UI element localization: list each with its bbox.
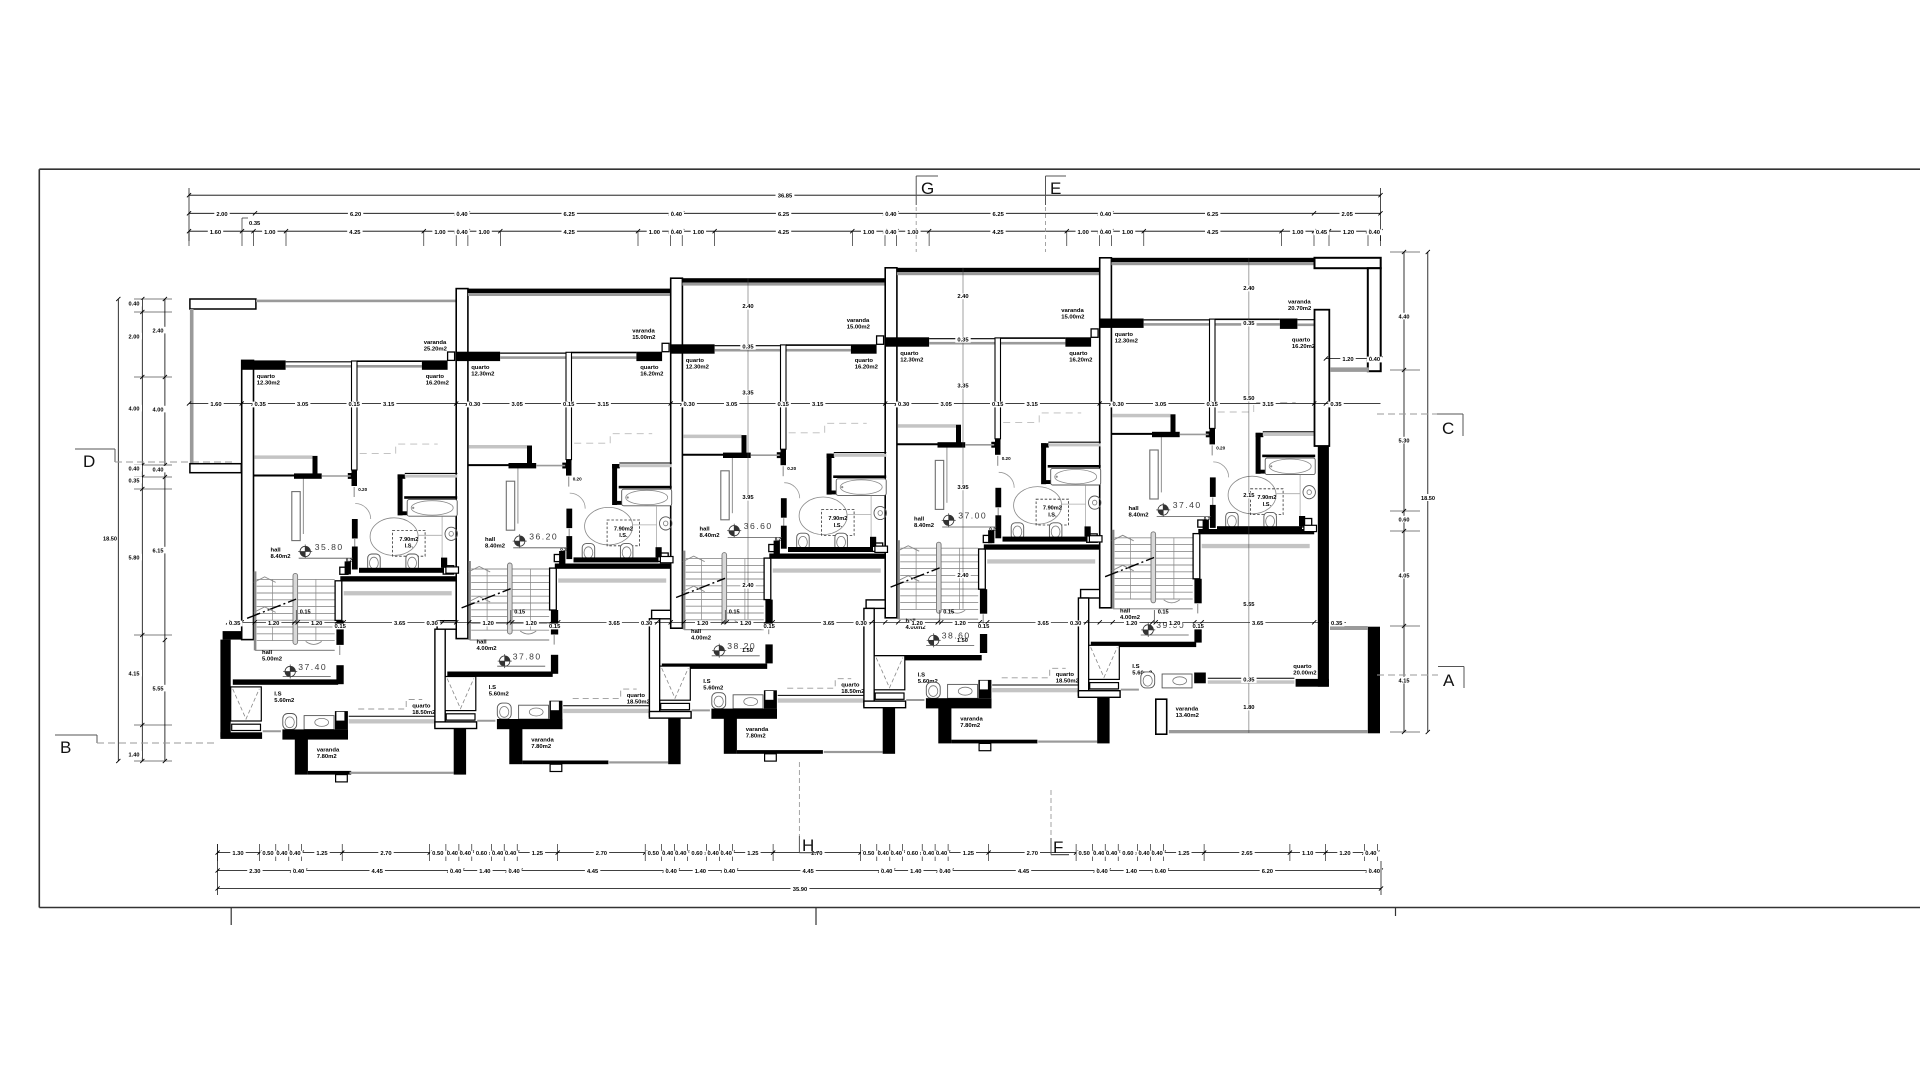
svg-text:1.00: 1.00 (478, 230, 489, 236)
unit 2 quarto 18.50 side wall (550, 568, 557, 610)
unit 4 hall door stubs (980, 589, 987, 614)
svg-text:hall: hall (477, 640, 488, 646)
unit 5 wardrobe nook (1113, 414, 1171, 418)
svg-text:37.00: 37.00 (958, 511, 987, 521)
svg-text:0.35: 0.35 (129, 478, 140, 484)
unit 1 toilet and bidet (368, 554, 381, 571)
unit 2 varanda parapet (497, 719, 563, 729)
svg-text:varanda: varanda (531, 737, 554, 743)
svg-text:7.90m2: 7.90m2 (614, 526, 633, 532)
svg-text:6.25: 6.25 (1207, 212, 1219, 218)
svg-text:I.S: I.S (703, 679, 710, 685)
svg-text:7.90m2: 7.90m2 (399, 537, 418, 543)
svg-text:18.50m2: 18.50m2 (412, 710, 436, 716)
unit 5 top right varanda 20.70 walls (1315, 258, 1381, 268)
svg-text:I.S: I.S (274, 692, 281, 698)
svg-text:hall: hall (691, 629, 702, 635)
unit 3 lower party stub (883, 706, 895, 753)
unit 2 IS label box (607, 520, 640, 546)
svg-text:2.40: 2.40 (957, 573, 968, 579)
unit 3 internal vertical dimension chain (747, 278, 749, 619)
unit 4 bath door swing arc (999, 472, 1015, 488)
svg-text:varanda: varanda (1061, 308, 1084, 314)
svg-text:5.00m2: 5.00m2 (262, 656, 283, 662)
svg-text:18.50m2: 18.50m2 (1056, 679, 1080, 685)
unit 3 varanda parapet (711, 709, 777, 719)
unit 4 internal vertical dimension chain (962, 268, 964, 609)
unit 4 bathtub (1051, 468, 1101, 485)
svg-text:0.40: 0.40 (456, 212, 467, 218)
svg-text:8.40m2: 8.40m2 (1129, 512, 1150, 518)
top dimension chain row2 (189, 212, 1381, 214)
svg-text:0.40: 0.40 (936, 851, 947, 857)
unit 3 bathroom walls (827, 454, 835, 458)
svg-text:12.30m2: 12.30m2 (471, 372, 495, 378)
svg-text:0.35: 0.35 (742, 344, 754, 350)
svg-text:37.40: 37.40 (298, 662, 327, 672)
svg-text:1.20: 1.20 (268, 621, 279, 627)
svg-text:C: C (1442, 419, 1454, 438)
svg-text:1.20: 1.20 (483, 621, 494, 627)
svg-text:0.50: 0.50 (432, 851, 443, 857)
unit 3 IS washbasin (733, 695, 763, 709)
svg-text:D: D (83, 452, 95, 471)
unit 1 wardrobe nook (255, 455, 313, 459)
unit 2 hall door stubs (551, 610, 558, 635)
unit 3 bath door swing arc (784, 483, 800, 499)
svg-text:quarto: quarto (627, 693, 646, 699)
unit 4 bath door stubs (995, 488, 1001, 508)
svg-text:3.15: 3.15 (812, 402, 824, 408)
unit 4 bath bottom wall (988, 530, 994, 543)
svg-text:hall: hall (485, 537, 496, 543)
svg-text:B: B (60, 738, 71, 757)
svg-text:4.15: 4.15 (129, 671, 140, 677)
svg-text:5.60m2: 5.60m2 (489, 692, 510, 698)
svg-text:4.00m2: 4.00m2 (1120, 615, 1141, 621)
svg-text:2.70: 2.70 (1027, 851, 1038, 857)
svg-text:0.30: 0.30 (427, 621, 438, 627)
svg-text:0.40: 0.40 (129, 466, 140, 472)
middle interior dimension chain (228, 621, 1346, 623)
svg-text:0.15: 0.15 (300, 610, 311, 616)
unit 1 bath door swing arc (355, 504, 371, 520)
unit 1 IS label box (393, 530, 426, 556)
unit 3 level marker lower (714, 646, 724, 656)
unit 3 bath bottom wall (774, 541, 780, 554)
svg-text:20.70m2: 20.70m2 (1288, 306, 1312, 312)
svg-text:0.20: 0.20 (1216, 445, 1225, 450)
svg-text:0.40: 0.40 (891, 851, 902, 857)
svg-text:3.35: 3.35 (742, 390, 754, 396)
unit 5 varanda back wall (1111, 258, 1314, 262)
unit 1 garden wall top (hollow) (190, 299, 256, 309)
svg-text:varanda: varanda (746, 727, 769, 733)
svg-text:hall: hall (262, 650, 273, 656)
unit 2 left wall lower (437, 621, 456, 630)
unit 5 dim 1.20 0.40 (1326, 358, 1381, 360)
svg-text:I.S.: I.S. (1263, 502, 1272, 508)
svg-text:1.00: 1.00 (693, 230, 704, 236)
svg-text:I.S: I.S (489, 685, 496, 691)
svg-text:1.60: 1.60 (210, 230, 221, 236)
svg-text:0.15: 0.15 (992, 402, 1004, 408)
svg-text:2.40: 2.40 (742, 304, 753, 310)
svg-text:16.20m2: 16.20m2 (1069, 357, 1093, 363)
svg-text:0.60: 0.60 (476, 851, 487, 857)
svg-text:1.10: 1.10 (1302, 851, 1313, 857)
svg-text:3.05: 3.05 (726, 402, 738, 408)
svg-text:16.20m2: 16.20m2 (426, 380, 450, 386)
svg-text:I.S.: I.S. (1048, 512, 1057, 518)
unit 4 lower party stub (1097, 696, 1109, 743)
svg-text:1.00: 1.00 (1078, 230, 1089, 236)
svg-text:15.00m2: 15.00m2 (1061, 314, 1085, 320)
svg-text:0.30: 0.30 (641, 621, 652, 627)
svg-text:6.25: 6.25 (993, 212, 1005, 218)
unit 1 garden side wall (190, 309, 194, 464)
unit 1 garden bottom wall (hollow) (190, 464, 241, 473)
svg-text:0.35: 0.35 (1331, 621, 1343, 627)
sheet border top line (39, 168, 1920, 170)
svg-text:5.60m2: 5.60m2 (274, 698, 295, 704)
svg-text:4.00m2: 4.00m2 (477, 646, 498, 652)
unit 1 stairs (254, 571, 257, 650)
unit 3 quarto 18.50 side wall (764, 558, 771, 600)
party wall unit 1/2 (456, 289, 468, 639)
party wall unit 3/4 (885, 268, 897, 618)
svg-text:0.40: 0.40 (939, 869, 950, 875)
svg-text:0.60: 0.60 (907, 851, 918, 857)
unit 5 quarto 18.50 side wall (1193, 534, 1200, 579)
svg-text:0.50: 0.50 (863, 851, 874, 857)
svg-text:5.60m2: 5.60m2 (703, 685, 724, 691)
svg-text:36.20: 36.20 (529, 531, 558, 541)
unit 3 wardrobe nook (684, 435, 742, 439)
svg-text:quarto: quarto (257, 374, 276, 380)
unit 5 partition wall (1210, 319, 1216, 428)
svg-text:0.50: 0.50 (648, 851, 659, 857)
left dimension chain inner (141, 299, 143, 761)
unit 4 IS label box (1036, 499, 1069, 525)
svg-text:5.30: 5.30 (1399, 438, 1410, 444)
svg-text:varanda: varanda (960, 717, 983, 723)
svg-text:4.45: 4.45 (587, 869, 599, 875)
svg-text:1.20: 1.20 (912, 621, 923, 627)
svg-text:5.80: 5.80 (129, 555, 140, 561)
svg-text:4.15: 4.15 (1399, 678, 1410, 684)
svg-text:5.55: 5.55 (153, 686, 164, 692)
unit 5 lower vertical chain (1248, 598, 1250, 733)
svg-text:2.00: 2.00 (129, 334, 140, 340)
svg-text:3.05: 3.05 (941, 402, 953, 408)
unit 2 IS wardrobe (445, 677, 476, 711)
svg-text:A: A (1443, 671, 1455, 690)
svg-text:0.35: 0.35 (255, 402, 267, 408)
unit 5 varanda 13.40 left wall (1194, 673, 1206, 684)
svg-text:0.35: 0.35 (249, 221, 261, 227)
svg-text:4.05: 4.05 (1399, 573, 1410, 579)
unit 2 upper dashed steps (574, 434, 652, 444)
svg-text:I.S.: I.S. (834, 523, 843, 529)
svg-text:2.40: 2.40 (1243, 286, 1254, 292)
unit 2 quarto front wall (468, 352, 500, 361)
svg-text:3.65: 3.65 (609, 621, 621, 627)
svg-text:12.30m2: 12.30m2 (1115, 339, 1139, 345)
unit 4 IS toilet (926, 682, 940, 698)
svg-text:0.40: 0.40 (1369, 869, 1380, 875)
unit 4 upper dashed steps (1003, 413, 1081, 423)
svg-text:0.30: 0.30 (1070, 621, 1081, 627)
svg-text:1.00: 1.00 (649, 230, 660, 236)
svg-text:quarto: quarto (1069, 351, 1088, 357)
unit 2 level marker upper (515, 536, 525, 546)
unit 4 bath back wall (938, 442, 966, 447)
svg-text:hall: hall (271, 548, 282, 554)
svg-text:0.30: 0.30 (469, 402, 480, 408)
unit 3 bathtub (836, 479, 886, 496)
unit 1 level marker upper (300, 546, 310, 556)
unit 1 washbasin (445, 527, 457, 540)
svg-text:0.60: 0.60 (1399, 517, 1410, 523)
svg-text:hall: hall (1129, 506, 1140, 512)
svg-text:12.30m2: 12.30m2 (257, 380, 281, 386)
svg-text:0.40: 0.40 (724, 869, 735, 875)
unit 1 quarto 18.50 side wall (335, 581, 342, 621)
unit 5 internal vertical dimension chain (1248, 258, 1250, 599)
svg-text:8.40m2: 8.40m2 (914, 523, 935, 529)
svg-text:37.40: 37.40 (1173, 500, 1202, 510)
unit 1 bath door stubs (352, 519, 358, 539)
svg-text:6.25: 6.25 (778, 212, 790, 218)
svg-text:16.20m2: 16.20m2 (640, 372, 664, 378)
unit 1 dashed step line (358, 700, 422, 710)
svg-text:15.00m2: 15.00m2 (847, 325, 871, 331)
svg-text:0.15: 0.15 (514, 610, 525, 616)
unit 2 bathtub (622, 489, 672, 506)
svg-text:0.35: 0.35 (229, 621, 241, 627)
unit 4 washbasin (1089, 496, 1101, 509)
svg-text:1.60: 1.60 (210, 402, 221, 408)
svg-text:0.40: 0.40 (129, 301, 140, 307)
svg-text:7.90m2: 7.90m2 (1043, 506, 1062, 512)
svg-text:7.80m2: 7.80m2 (746, 733, 767, 739)
right dimension chain inner (1403, 252, 1405, 732)
unit 4 bathroom walls (1041, 443, 1049, 447)
svg-text:5.50: 5.50 (1243, 396, 1254, 402)
unit 2 bathroom walls (612, 464, 620, 468)
svg-text:quarto: quarto (412, 703, 431, 709)
svg-text:quarto: quarto (686, 358, 705, 364)
unit 1 quarto 18.50 top wall (340, 576, 456, 581)
top chain 0.35 note (241, 218, 243, 231)
svg-text:6.20: 6.20 (350, 212, 361, 218)
unit 5 toilet and bidet (1226, 512, 1239, 529)
svg-text:1.50: 1.50 (742, 648, 753, 654)
unit 5 washbasin (1303, 486, 1315, 499)
unit 5 bath back wall (1152, 432, 1180, 437)
svg-text:18.50m2: 18.50m2 (627, 700, 651, 706)
unit 5 bath door swing arc (1213, 462, 1229, 478)
unit 1 left outer wall (242, 360, 254, 639)
svg-text:0.40: 0.40 (662, 851, 673, 857)
svg-text:quarto: quarto (1056, 672, 1075, 678)
svg-text:0.40: 0.40 (671, 212, 682, 218)
svg-text:16.20m2: 16.20m2 (855, 364, 879, 370)
bottom dimension chain row1 (218, 852, 1378, 854)
unit 2 varanda back wall (468, 289, 671, 293)
svg-text:1.25: 1.25 (532, 851, 544, 857)
unit 5 quarto front wall (1112, 319, 1144, 328)
unit 4 door leaf (935, 460, 943, 509)
svg-text:0.40: 0.40 (1138, 851, 1149, 857)
svg-text:3.15: 3.15 (1027, 402, 1039, 408)
unit 3 bath back wall (723, 453, 751, 458)
unit 2 quarto 18.50 top wall (555, 564, 671, 569)
unit 3 bath door stubs (781, 498, 787, 518)
unit 5 quarto 20.00 bottom wall (1296, 679, 1329, 687)
svg-text:6.15: 6.15 (153, 548, 164, 554)
unit 2 quarto glazing (563, 705, 689, 707)
svg-text:quarto: quarto (1115, 332, 1134, 338)
svg-text:0.40: 0.40 (508, 869, 519, 875)
unit 2 lower party stub (668, 717, 680, 764)
svg-text:35.80: 35.80 (315, 542, 344, 552)
svg-text:0.30: 0.30 (898, 402, 909, 408)
unit 4 IS room top wall (876, 655, 981, 660)
svg-text:0.35: 0.35 (1243, 321, 1255, 327)
unit 1 bathtub (407, 500, 457, 517)
svg-text:quarto: quarto (841, 683, 860, 689)
sheet border left line (38, 169, 40, 907)
unit 5 door leaf (1150, 450, 1158, 499)
svg-text:2.15: 2.15 (1243, 493, 1255, 499)
unit 4 IS wardrobe (874, 656, 905, 690)
unit 3 quarto 18.50 top wall (769, 554, 885, 559)
svg-text:0.20: 0.20 (358, 487, 367, 492)
svg-text:2.65: 2.65 (1241, 851, 1253, 857)
unit 1 varanda parapet (282, 729, 348, 739)
svg-text:0.15: 0.15 (563, 402, 575, 408)
unit 4 level marker lower (929, 635, 939, 645)
unit 5 bathroom walls (1256, 433, 1264, 437)
svg-text:6.20: 6.20 (1262, 869, 1273, 875)
unit 4 toilet and bidet (1011, 523, 1024, 540)
left dimension chain outer (164, 299, 166, 761)
svg-text:quarto: quarto (1292, 338, 1311, 344)
svg-text:4.45: 4.45 (802, 869, 814, 875)
svg-text:0.15: 0.15 (1158, 610, 1169, 616)
svg-text:1.20: 1.20 (955, 621, 966, 627)
svg-text:1.40: 1.40 (910, 869, 921, 875)
unit 3 hall door stubs (765, 600, 772, 625)
unit 3 washbasin (874, 506, 886, 519)
svg-text:0.40: 0.40 (1369, 230, 1380, 236)
svg-text:7.80m2: 7.80m2 (960, 723, 981, 729)
svg-text:varanda: varanda (1176, 706, 1199, 712)
unit 5 IS washbasin (1162, 674, 1192, 688)
unit 1 hall door stubs (336, 620, 343, 645)
svg-text:0.20: 0.20 (1002, 456, 1011, 461)
unit 5 bath door stubs (1210, 477, 1216, 497)
unit 4 IS washbasin (948, 684, 978, 698)
svg-text:2.00: 2.00 (216, 212, 227, 218)
unit 5 level marker lower (1143, 625, 1153, 635)
unit 4 wardrobe nook (898, 424, 956, 428)
svg-text:0.40: 0.40 (153, 467, 164, 473)
svg-text:0.40: 0.40 (1100, 212, 1111, 218)
unit 2 IS toilet (497, 703, 511, 719)
svg-text:3.65: 3.65 (1038, 621, 1050, 627)
svg-text:1.00: 1.00 (264, 230, 275, 236)
unit 1 partition wall (352, 361, 358, 470)
unit 2 washbasin (660, 517, 672, 530)
svg-text:0.40: 0.40 (1096, 869, 1107, 875)
svg-text:quarto: quarto (426, 374, 445, 380)
unit 5 quarto 18.50 top wall (1198, 529, 1314, 534)
unit 4 level marker upper (944, 515, 954, 525)
bottom dimension chain row2 (218, 870, 1381, 872)
svg-text:4.25: 4.25 (1207, 230, 1219, 236)
svg-text:hall: hall (700, 527, 711, 533)
svg-text:0.15: 0.15 (778, 402, 790, 408)
svg-text:6.25: 6.25 (564, 212, 576, 218)
svg-text:0.15: 0.15 (978, 624, 990, 630)
unit 1 window pier (448, 352, 455, 360)
svg-text:quarto: quarto (1293, 664, 1312, 670)
unit 1 bath bottom wall (345, 561, 351, 574)
svg-text:0.40: 0.40 (492, 851, 503, 857)
unit 5 quarto 20.00 glazing (1208, 677, 1295, 679)
svg-text:1.30: 1.30 (232, 851, 243, 857)
unit 5 varanda 13.40 bottom edge (1169, 730, 1368, 733)
svg-text:0.30: 0.30 (856, 621, 867, 627)
svg-text:0.40: 0.40 (1100, 230, 1111, 236)
unit 2 bath door stubs (566, 509, 572, 528)
svg-text:varanda: varanda (847, 318, 870, 324)
svg-text:0.40: 0.40 (878, 851, 889, 857)
svg-text:quarto: quarto (855, 358, 874, 364)
svg-text:3.05: 3.05 (512, 402, 524, 408)
svg-text:3.65: 3.65 (823, 621, 835, 627)
unit 5 extra labels upper chain (1241, 396, 1256, 402)
svg-text:0.60: 0.60 (1122, 851, 1133, 857)
unit 5 hall door stubs (1194, 579, 1201, 604)
svg-text:quarto: quarto (471, 365, 490, 371)
svg-text:hall: hall (914, 516, 925, 522)
svg-text:0.60: 0.60 (691, 851, 702, 857)
svg-text:1.00: 1.00 (863, 230, 874, 236)
svg-text:0.15: 0.15 (335, 624, 347, 630)
unit 1 level marker lower (285, 666, 295, 676)
svg-text:7.90m2: 7.90m2 (828, 516, 847, 522)
unit 3 upper dashed steps (789, 423, 867, 433)
svg-text:0.40: 0.40 (450, 869, 461, 875)
top dimension chain row3 (189, 230, 1381, 232)
unit 5 bathtub (1265, 458, 1315, 475)
svg-text:20.00m2: 20.00m2 (1293, 671, 1317, 677)
unit 5 left wall lower (1081, 590, 1100, 599)
svg-text:0.15: 0.15 (1193, 624, 1205, 630)
unit 3 IS toilet (712, 693, 726, 709)
svg-text:5.55: 5.55 (1243, 602, 1255, 608)
svg-text:1.25: 1.25 (1178, 851, 1190, 857)
svg-text:8.40m2: 8.40m2 (700, 533, 721, 539)
unit 1 IS wardrobe (231, 687, 262, 721)
unit 3 IS room top wall (662, 664, 767, 669)
right dimension chain total 18.50 (1427, 252, 1429, 732)
unit 2 bath back wall (509, 463, 537, 468)
